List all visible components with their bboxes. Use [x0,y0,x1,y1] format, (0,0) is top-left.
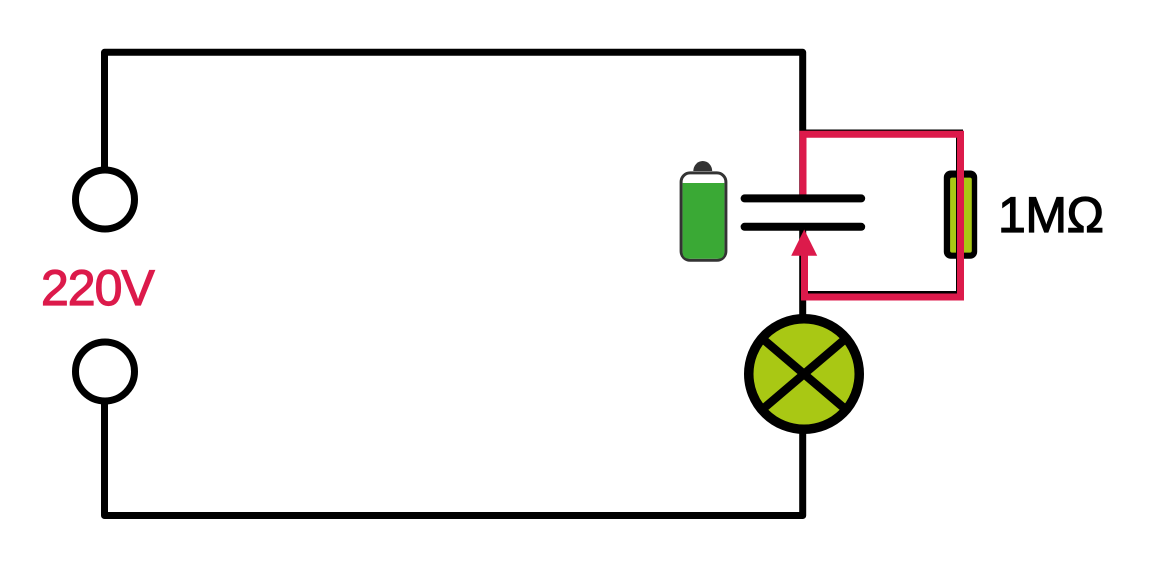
terminal T2 (lower source terminal) [76,342,135,401]
lamp L1 [749,319,860,430]
red loop wire: top, right (over resistor), bottom segments [800,134,961,297]
wire: top loop (terminal T1 up, across top, down right side to capacitor) [105,52,803,199]
svg-text:220V: 220V [41,260,155,316]
black wire loop under red highlight (resistor branch) [803,133,960,295]
wire: middle vertical (capacitor bottom plate down to lamp top) [799,227,806,317]
battery icon (charge indicator beside capacitor) [681,161,726,260]
capacitor C1: bottom plate [745,223,862,231]
capacitor C1: top plate [745,194,862,202]
terminal T1 (upper source terminal) [76,170,135,229]
wire: bottom return (lamp bottom, down, left across bottom, up to terminal T2) [105,403,803,516]
red wire: lead from arrow down to red bottom wire [801,246,808,301]
svg-text:1MΩ: 1MΩ [998,187,1104,243]
current direction arrow (points up at capacitor) [791,230,817,256]
resistor R1 [944,171,977,259]
red highlight wire: capacitor top lead [800,134,807,197]
